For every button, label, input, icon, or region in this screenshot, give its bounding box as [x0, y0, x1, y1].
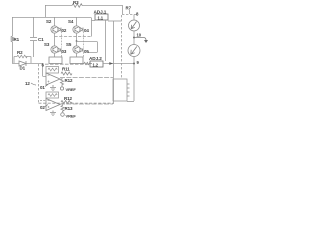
opamp1 output wire long	[60, 77, 113, 79]
wire S4-S5 vertical	[76, 33, 78, 46]
wire S2-S3 vertical	[54, 33, 56, 46]
feedback zigzag 2	[48, 94, 57, 97]
svg-text:02: 02	[40, 105, 45, 110]
feedback zigzag 1	[48, 68, 57, 71]
wire box to right rail	[127, 101, 134, 103]
wire diode bus right	[83, 32, 85, 58]
wire left vertical	[12, 17, 14, 63]
wire C1 vertical	[33, 17, 35, 57]
transistor S5	[73, 46, 80, 53]
wire control ADJ1	[55, 36, 92, 38]
node arrow out	[133, 37, 135, 39]
svg-text:8: 8	[136, 12, 139, 17]
opamp1 feedback box	[46, 67, 59, 74]
node S5 top	[76, 40, 78, 42]
svg-text:10: 10	[137, 33, 142, 38]
resistor R12 vertical	[61, 78, 64, 87]
svg-text:12: 12	[25, 81, 30, 86]
leader 12	[31, 83, 36, 85]
wire diode bus left	[61, 32, 63, 58]
svg-text:S4: S4	[68, 19, 74, 24]
dashed box 8 left edge	[121, 15, 123, 78]
wire R2 branch	[14, 57, 31, 64]
resistor R13 vertical	[61, 105, 64, 113]
block ADJ.2	[90, 61, 103, 67]
capacitor C1	[30, 38, 37, 41]
wire S2 vertical	[54, 17, 56, 26]
wire source2 bottom	[133, 57, 135, 102]
svg-text:04: 04	[84, 28, 89, 33]
wire ADJ1 right lead	[108, 20, 121, 22]
svg-text:S2: S2	[46, 19, 52, 24]
diode 04	[80, 28, 83, 32]
svg-text:ADJ.1: ADJ.1	[94, 10, 107, 15]
opamp2 input stub	[40, 100, 46, 102]
resistor box S3	[49, 57, 62, 64]
svg-text:D1: D1	[20, 66, 26, 71]
opamp2 feedback box	[46, 92, 59, 98]
leader 01	[45, 85, 48, 87]
terminal VREF1	[60, 87, 63, 90]
diode D1	[19, 61, 26, 66]
svg-text:01: 01	[40, 85, 45, 90]
ground 2	[50, 111, 56, 116]
transistor S3	[51, 46, 58, 53]
wire S5 to box	[76, 53, 78, 57]
svg-text:9: 9	[137, 60, 140, 65]
ground 1	[50, 85, 56, 91]
leader 02b	[45, 105, 48, 107]
node ADJ2 out	[109, 62, 113, 65]
op-amp 02	[46, 99, 60, 111]
resistor R3	[72, 4, 82, 8]
battery ticks	[127, 84, 130, 96]
svg-text:R11: R11	[62, 67, 70, 72]
svg-text:02: 02	[62, 28, 67, 33]
svg-text:ADJ.2: ADJ.2	[89, 56, 102, 61]
svg-text:R13: R13	[65, 106, 74, 111]
svg-text:03: 03	[62, 49, 67, 54]
diode 05	[80, 48, 83, 52]
wire main dashes to opamp region	[45, 63, 90, 65]
svg-text:S3: S3	[44, 42, 50, 47]
resistor R11 zigzag	[61, 72, 72, 75]
wire top rail	[12, 17, 91, 19]
opamp2 output wire	[60, 103, 113, 105]
svg-text:R3: R3	[73, 0, 79, 5]
svg-text:1.2: 1.2	[93, 62, 99, 67]
wire source1-source2	[133, 31, 135, 45]
svg-text:05: 05	[84, 49, 89, 54]
current source I2	[128, 45, 140, 57]
diode 03	[58, 48, 61, 52]
wire riser	[45, 5, 47, 17]
wire S3 to box	[54, 53, 56, 57]
dashed box 12 left edge	[38, 64, 40, 103]
wire node right	[77, 42, 98, 53]
node right rail	[133, 63, 135, 65]
terminal VREF2	[61, 113, 65, 117]
block ADJ.1	[95, 14, 108, 20]
op-amp 01	[46, 73, 60, 85]
wire upper rail	[45, 5, 122, 7]
svg-text:VREF: VREF	[66, 114, 77, 119]
resistor R7 lead	[129, 10, 131, 14]
svg-text:R2: R2	[17, 50, 23, 55]
svg-text:1.1: 1.1	[98, 15, 104, 20]
svg-text:R12: R12	[64, 96, 73, 101]
wire ADJ1 left lead	[92, 20, 96, 22]
resistor box S5	[70, 57, 83, 64]
resistor R12b zigzag	[61, 101, 72, 104]
wire output arrow	[135, 38, 147, 42]
load box right	[113, 79, 127, 101]
wire source1 top	[133, 15, 135, 21]
dashed top lead right block	[122, 14, 138, 16]
dashed box 12 bottom edge	[39, 102, 114, 104]
current source I1	[129, 20, 140, 31]
resistor R2	[17, 55, 27, 58]
resistor R1	[11, 36, 14, 42]
diode 02	[58, 28, 61, 32]
svg-text:R7: R7	[126, 6, 132, 11]
wire ADJ1 mid vertical	[105, 20, 107, 61]
transistor S4	[73, 26, 80, 33]
wire rail drop to x122	[122, 5, 124, 14]
svg-text:R12: R12	[65, 78, 74, 83]
transistor S2	[51, 26, 58, 33]
svg-text:VREF: VREF	[66, 87, 77, 92]
svg-text:R1: R1	[14, 37, 20, 42]
wire S4 vertical	[76, 17, 78, 26]
wire ADJ2 left lead	[83, 62, 92, 64]
wire ADJ2 right lead	[103, 63, 134, 65]
wire lower main	[12, 63, 42, 65]
svg-text:6: 6	[42, 63, 45, 68]
opamp1 input wire	[43, 63, 47, 77]
wire right vertical x113	[113, 21, 115, 104]
svg-text:S5: S5	[66, 42, 72, 47]
